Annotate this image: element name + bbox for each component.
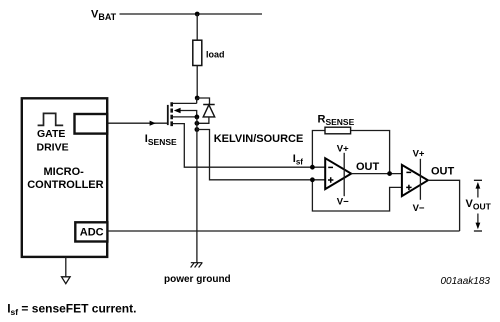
wire U1 output bbox=[351, 173, 402, 175]
svg-text:ISENSE: ISENSE bbox=[145, 133, 177, 147]
wire kelvin bottom loop bbox=[312, 180, 402, 211]
ground power (chassis symbol) bbox=[191, 263, 203, 268]
wire VBAT to load bbox=[196, 14, 198, 40]
wire load to drain bbox=[196, 66, 198, 99]
svg-text:V−: V− bbox=[413, 203, 425, 214]
wire diode anode bbox=[197, 117, 209, 123]
svg-text:KELVIN/SOURCE: KELVIN/SOURCE bbox=[214, 133, 304, 145]
diode body (triangle) bbox=[203, 105, 215, 117]
svg-text:DRIVE: DRIVE bbox=[37, 142, 69, 154]
svg-text:V+: V+ bbox=[413, 148, 425, 159]
wire feedback top left bbox=[312, 131, 325, 168]
pulse waveform symbol bbox=[38, 113, 64, 125]
junction dot drain bbox=[195, 96, 200, 101]
port gate-drive output bbox=[75, 114, 108, 134]
svg-text:VOUT: VOUT bbox=[466, 198, 492, 212]
op-amp U2 V+ rail line bbox=[419, 159, 421, 200]
svg-text:ADC: ADC bbox=[80, 226, 104, 238]
op-amp U1 V+ rail line bbox=[343, 153, 345, 196]
arrowhead gate drive bbox=[150, 121, 156, 126]
wire U2 output to Vout bbox=[428, 180, 460, 231]
wire FET main source lead bbox=[173, 116, 197, 118]
ground signal (open triangle) bbox=[62, 277, 71, 284]
wire sense source to op-amp minus input (Isf) bbox=[173, 124, 326, 168]
svg-text:VBAT: VBAT bbox=[91, 8, 117, 22]
wire FET drain lead bbox=[173, 98, 197, 103]
junction dot source/body bbox=[195, 115, 200, 120]
wire gate drive to gate bbox=[107, 122, 167, 124]
svg-text:V−: V− bbox=[337, 197, 349, 208]
junction dot OUT/RSENSE bbox=[387, 171, 392, 176]
svg-text:V+: V+ bbox=[337, 144, 349, 155]
svg-text:Isf = senseFET current.: Isf = senseFET current. bbox=[7, 302, 136, 318]
wire kelvin source to op-amp plus input bbox=[197, 130, 326, 180]
wire ADC line (Vout feedback) bbox=[107, 230, 459, 232]
wire MCU to signal ground bbox=[65, 257, 67, 277]
op-amp U1 triangle bbox=[325, 158, 351, 189]
junction dot kelvin tap bbox=[195, 127, 200, 132]
transistor senseFET channel segments bbox=[170, 102, 173, 126]
Vout arrowhead down bbox=[476, 223, 481, 230]
svg-text:CONTROLLER: CONTROLLER bbox=[27, 179, 103, 191]
svg-text:load: load bbox=[206, 50, 225, 60]
Vout dimension arrow line bbox=[477, 184, 479, 228]
Vout dimension bottom bar bbox=[474, 230, 482, 232]
junction dot diode anode bbox=[195, 121, 200, 126]
U2 plus input mark bbox=[406, 185, 411, 190]
junction dot kelvin/plus input bbox=[310, 177, 315, 182]
wire FET body lead with arrow bbox=[180, 111, 197, 117]
transistor senseFET gate bar bbox=[167, 105, 169, 125]
svg-text:GATE: GATE bbox=[37, 128, 65, 140]
svg-text:OUT: OUT bbox=[356, 161, 380, 173]
Vout arrowhead up bbox=[476, 182, 481, 189]
block MICRO-CONTROLLER box bbox=[22, 98, 107, 257]
resistor load bbox=[193, 40, 202, 65]
svg-text:OUT: OUT bbox=[431, 165, 455, 177]
svg-text:Isf: Isf bbox=[293, 153, 304, 167]
wire drain to diode cathode bbox=[197, 98, 209, 105]
svg-text:power ground: power ground bbox=[164, 274, 231, 285]
arrowhead FET body (points to channel) bbox=[174, 108, 181, 113]
port ADC box bbox=[75, 222, 107, 241]
U1 minus input mark bbox=[328, 166, 333, 168]
resistor RSENSE bbox=[325, 127, 351, 134]
wire VBAT rail bbox=[120, 13, 263, 15]
junction dot VBAT/load bbox=[195, 12, 200, 17]
Vout dimension top bar bbox=[474, 179, 482, 181]
junction dot Isf/minus input bbox=[310, 165, 315, 170]
op-amp U2 triangle bbox=[402, 165, 428, 196]
svg-text:RSENSE: RSENSE bbox=[318, 114, 355, 128]
U2 minus input mark bbox=[406, 171, 411, 173]
wire feedback top right bbox=[351, 131, 390, 174]
U1 plus input mark bbox=[328, 177, 333, 182]
diode body (cathode bar) bbox=[203, 104, 215, 106]
svg-text:MICRO-: MICRO- bbox=[44, 166, 85, 178]
wire power ground run bbox=[196, 117, 198, 263]
svg-text:001aak183: 001aak183 bbox=[441, 276, 491, 287]
